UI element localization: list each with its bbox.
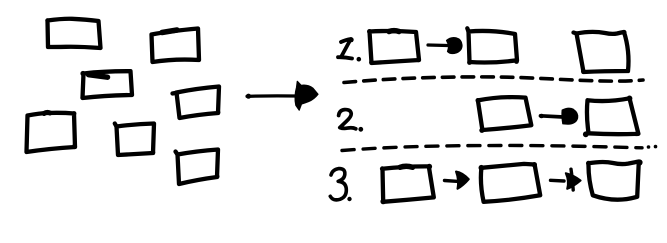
small arrow 2 shaft <box>539 114 563 119</box>
box L7 <box>176 150 220 185</box>
small arrow 1 shaft <box>428 43 447 47</box>
box L5 <box>27 111 78 152</box>
box R1c <box>574 30 629 74</box>
small arrow 3b head <box>566 169 581 190</box>
box R2b <box>583 96 639 138</box>
small arrow 3a shaft <box>445 179 457 183</box>
dashed divider 2 <box>342 145 642 150</box>
dashed divider 1 <box>344 77 643 83</box>
box R2a <box>476 97 532 133</box>
box L6 <box>115 124 156 156</box>
box L2 <box>152 29 201 63</box>
small arrow 3a head <box>456 172 469 189</box>
label 2. <box>339 110 364 132</box>
dash end dot a <box>647 145 651 149</box>
label 3. <box>330 169 351 202</box>
box L3 <box>80 71 132 100</box>
box R3a <box>380 164 434 205</box>
small arrow 3b shaft <box>551 179 565 183</box>
box L1 <box>45 18 102 50</box>
box R3c <box>586 159 643 199</box>
big arrow shaft <box>246 94 295 99</box>
small arrow 1 head <box>447 38 463 54</box>
box R1b <box>467 28 519 65</box>
label 1. <box>338 37 361 61</box>
box L4 <box>173 87 221 119</box>
dash end dot b <box>654 145 658 149</box>
small arrow 2 head <box>562 108 578 124</box>
box R1a <box>367 29 421 65</box>
box R3b <box>479 162 541 202</box>
big arrow head <box>295 81 318 110</box>
